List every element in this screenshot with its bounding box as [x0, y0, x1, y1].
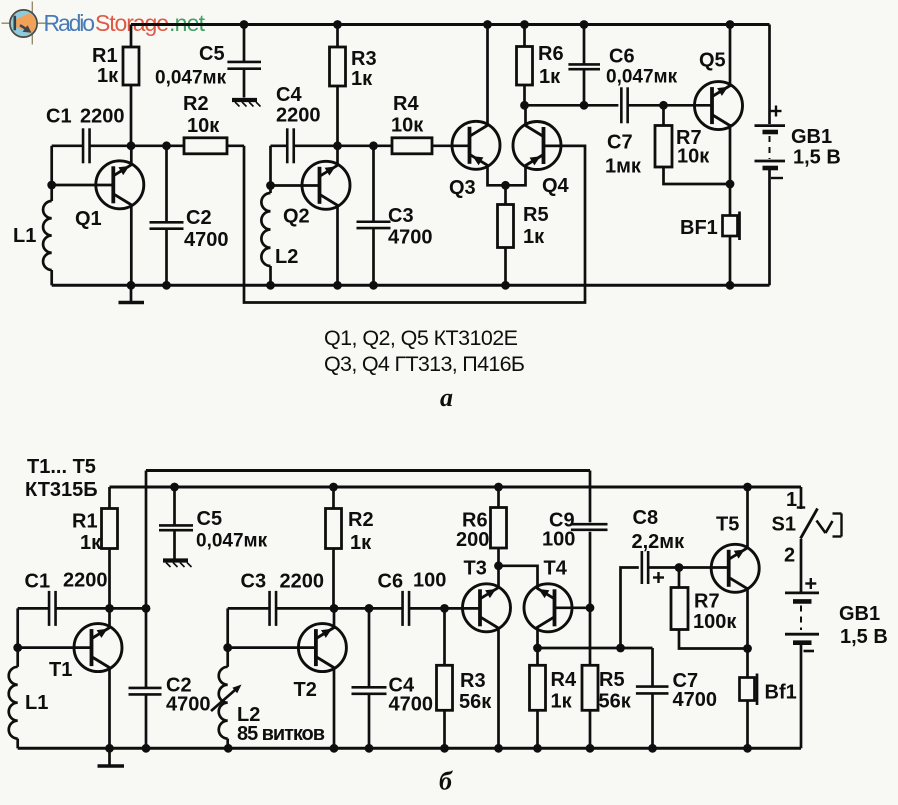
svg-text:0,047мк: 0,047мк — [196, 531, 268, 552]
resistor R2 (a) — [184, 138, 244, 154]
svg-text:10к: 10к — [187, 115, 220, 137]
wire rail to switch (b) — [800, 487, 803, 509]
svg-text:10к: 10к — [391, 115, 424, 137]
svg-text:T2: T2 — [294, 679, 317, 701]
label R3 (b) — [459, 670, 492, 713]
transistor T1 (b) — [74, 624, 122, 672]
svg-text:L1: L1 — [13, 225, 36, 247]
capacitor C9 (b) — [571, 524, 608, 530]
svg-text:BF1: BF1 — [680, 217, 718, 239]
capacitor C6 (a) — [568, 25, 600, 106]
svg-text:1: 1 — [786, 489, 797, 511]
label R6 (b) — [456, 510, 489, 552]
svg-text:T1: T1 — [49, 659, 72, 681]
wire bottom common rail (b) — [18, 747, 801, 750]
earphone BF1 (a) — [723, 212, 740, 286]
switch S1 (b) — [797, 508, 842, 539]
svg-text:2200: 2200 — [276, 105, 321, 127]
transistor T2 (b) — [298, 624, 346, 672]
resistor R7 (b) — [671, 568, 748, 649]
label T4 (b) — [544, 558, 568, 580]
capacitor C7 (b) — [636, 648, 669, 748]
inductor L1 (a) — [43, 201, 52, 285]
wire node line stage1 (b) — [56, 604, 147, 613]
capacitor C5 (b) — [159, 487, 193, 559]
label C7 (a) — [605, 132, 642, 178]
transistor T4 (b) — [524, 584, 572, 632]
resistor R7 (a) — [655, 105, 730, 184]
svg-text:R7: R7 — [694, 591, 720, 613]
label T1 (b) — [49, 659, 72, 681]
logo crosshair — [2, 2, 48, 45]
label Q5 (a) — [699, 50, 726, 72]
label Q3 (a) — [449, 177, 476, 199]
wire T2 collector lead (b) — [333, 608, 336, 629]
label R1 (a) — [92, 45, 119, 87]
svg-text:100: 100 — [413, 570, 446, 592]
svg-text:Q1, Q2, Q5 КТ3102Е: Q1, Q2, Q5 КТ3102Е — [324, 326, 518, 350]
label R2 (a) — [183, 93, 220, 137]
label R4 (a) — [391, 93, 424, 137]
battery minus sign (b) — [804, 650, 815, 653]
wire T3 collector lead (b) — [494, 561, 503, 588]
svg-text:4700: 4700 — [673, 689, 718, 711]
svg-text:C6: C6 — [609, 46, 635, 68]
svg-text:а: а — [440, 383, 453, 412]
wire Q3 emitter lead (a) — [488, 165, 506, 186]
resistor R2 (b) — [326, 487, 342, 608]
svg-text:100: 100 — [542, 529, 575, 551]
wire top supply rail (a) — [131, 23, 770, 26]
wire T4 emitter lead (b) — [533, 627, 542, 665]
wire T1 base lead (b) — [18, 646, 91, 649]
svg-text:C3: C3 — [388, 205, 414, 227]
svg-text:1к: 1к — [351, 68, 373, 90]
wire C1 left lead down (a) — [47, 146, 56, 201]
svg-text:R5: R5 — [599, 669, 625, 691]
capacitor C6 (b) — [403, 591, 480, 626]
ground bar below C5 (a) — [232, 100, 261, 107]
wire T4 collector lead (b) — [499, 566, 538, 589]
transistor Q5 (a) — [695, 82, 743, 130]
earphone Bf1 (b) — [740, 674, 758, 749]
svg-text:2200: 2200 — [280, 571, 325, 593]
svg-text:1к: 1к — [551, 691, 573, 713]
svg-text:0,047мк: 0,047мк — [155, 68, 227, 89]
svg-text:4700: 4700 — [389, 694, 434, 716]
wire T5 emitter lead (b) — [743, 587, 752, 678]
wire bottom common rail (a) — [52, 284, 770, 287]
wire feedback right vertical (b) — [586, 471, 595, 666]
svg-text:C6: C6 — [378, 571, 404, 593]
svg-text:1мк: 1мк — [605, 156, 642, 178]
battery plus sign (a) — [771, 106, 782, 117]
wire T1 emitter lead (b) — [108, 667, 111, 748]
label Q4 (a) — [542, 175, 570, 197]
svg-text:R2: R2 — [348, 509, 374, 531]
svg-text:L1: L1 — [25, 692, 48, 714]
wire Q4 emitter lead (a) — [506, 165, 526, 185]
label C4 (b) — [389, 675, 434, 716]
transistor Q4 (a) — [513, 122, 561, 170]
svg-text:б: б — [439, 767, 453, 796]
capacitor C1 (b) — [18, 591, 56, 626]
label C6 (b) — [378, 570, 447, 593]
svg-text:T3: T3 — [464, 558, 487, 580]
svg-text:1к: 1к — [97, 65, 119, 87]
svg-text:1,5 В: 1,5 В — [840, 626, 888, 648]
svg-text:C1: C1 — [46, 106, 72, 128]
svg-text:КТ315Б: КТ315Б — [25, 479, 98, 501]
label figure a — [440, 383, 453, 412]
node junction dots on top rail (a) — [240, 20, 735, 29]
svg-text:4700: 4700 — [166, 694, 211, 716]
logo text RadioStorage.net — [44, 10, 206, 36]
resistor R1 (b) — [102, 487, 118, 608]
svg-text:2200: 2200 — [80, 106, 125, 128]
svg-text:R3: R3 — [351, 48, 377, 70]
label C1 (a) — [46, 106, 125, 128]
resistor R1 (a) — [123, 25, 139, 146]
label L2 (a) — [275, 246, 298, 268]
wire Q1 base lead (a) — [52, 184, 114, 187]
battery minus sign (a) — [771, 177, 783, 179]
label R1 (b) — [72, 511, 102, 555]
svg-text:2: 2 — [784, 545, 795, 567]
wire Q5 collector lead (a) — [729, 25, 732, 88]
svg-text:R5: R5 — [523, 204, 549, 226]
svg-text:R4: R4 — [551, 669, 577, 691]
wire emitter node line (b) — [538, 644, 653, 653]
wire Q2 base lead (a) — [271, 184, 320, 187]
svg-text:1к: 1к — [80, 532, 102, 554]
svg-text:C8: C8 — [633, 507, 659, 529]
svg-text:2,2мк: 2,2мк — [632, 531, 686, 553]
label L2 (b) — [237, 704, 325, 745]
svg-text:R1: R1 — [72, 511, 98, 533]
svg-text:Q4: Q4 — [542, 175, 570, 197]
label R6 (a) — [538, 43, 564, 88]
inductor L2 (b) — [219, 667, 228, 749]
wire T5 collector lead (b) — [746, 487, 749, 549]
svg-text:56к: 56к — [599, 691, 632, 713]
label T5 (b) — [716, 514, 739, 536]
svg-text:Q5: Q5 — [699, 50, 726, 72]
label BF1 (a) — [680, 217, 718, 239]
svg-text:Q3: Q3 — [449, 177, 476, 199]
wire node line stage1 (a) — [90, 141, 185, 150]
svg-text:C5: C5 — [199, 43, 225, 65]
label C1 (b) — [25, 570, 108, 593]
label R7 (a) — [676, 127, 710, 168]
svg-text:Т1... Т5: Т1... Т5 — [27, 456, 96, 478]
label Q1 (a) — [75, 208, 102, 230]
label C6 (a) — [606, 46, 678, 88]
wire T3 emitter lead (b) — [497, 627, 500, 748]
wire supply rail (b) — [110, 483, 802, 492]
battery GB1 (b) — [785, 539, 819, 748]
label C4 (a) — [276, 84, 321, 127]
label C3 (a) — [388, 205, 433, 249]
svg-text:GB1: GB1 — [791, 126, 832, 148]
svg-text:100к: 100к — [693, 611, 737, 633]
label R3 (a) — [351, 48, 377, 90]
resistor R4 (b) — [530, 665, 546, 748]
label figure b — [439, 767, 453, 796]
resistor R6 (a) — [517, 25, 533, 106]
label C8 (b) — [632, 507, 686, 553]
capacitor C8 (b) — [621, 551, 729, 648]
resistor R6 (b) — [491, 487, 507, 566]
svg-text:200: 200 — [456, 529, 489, 551]
label R5 (a) — [523, 204, 549, 248]
label C8 plus sign (b) — [653, 572, 664, 583]
svg-text:T4: T4 — [544, 558, 568, 580]
wire Q1 emitter lead (a) — [130, 204, 133, 285]
wire Q3 collector lead (a) — [486, 25, 489, 127]
label L1 (b) — [25, 692, 48, 714]
label T3 (b) — [464, 558, 487, 580]
node junction dots on bottom rail (a) — [127, 281, 735, 290]
wire Q4 collector node line (a) — [520, 101, 618, 110]
svg-text:R3: R3 — [460, 670, 486, 692]
wire Q2 collector lead (a) — [336, 146, 339, 167]
wire node line stage2 (a) — [294, 141, 392, 150]
label C5 (a) — [155, 43, 227, 89]
svg-text:Bf1: Bf1 — [765, 682, 797, 704]
inductor L1 (b) — [9, 667, 18, 749]
label Q2 (a) — [283, 206, 310, 228]
label C3 (b) — [241, 571, 325, 593]
wire Q4 base lead (a) — [544, 144, 586, 147]
svg-text:Q2: Q2 — [283, 206, 310, 228]
inductor L2 adjust arrow (b) — [211, 685, 242, 712]
capacitor C4 (b) — [352, 608, 387, 748]
svg-text:R6: R6 — [538, 43, 564, 65]
label T2 (b) — [294, 679, 317, 701]
ground bar below C5 (b) — [163, 561, 192, 568]
svg-text:S1: S1 — [772, 514, 796, 536]
label C2 (a) — [184, 207, 229, 251]
svg-text:C2: C2 — [186, 207, 212, 229]
svg-text:T5: T5 — [716, 514, 739, 536]
capacitor C1 (a) — [52, 128, 90, 163]
wire Q1 collector lead (a) — [130, 146, 133, 166]
svg-text:R2: R2 — [183, 93, 209, 115]
logo transistor icon — [10, 10, 38, 37]
svg-text:1к: 1к — [523, 226, 545, 248]
resistor R3 (a) — [330, 25, 346, 146]
capacitor C5 (a) — [227, 25, 261, 98]
node junction dots on bottom rail (b) — [105, 744, 752, 753]
svg-text:C4: C4 — [276, 84, 302, 106]
label C2 (b) — [166, 675, 211, 716]
capacitor C7 (a) — [621, 87, 711, 123]
svg-text:R1: R1 — [92, 45, 118, 67]
label C7 (b) — [673, 670, 718, 711]
wire Q4 collector lead (a) — [524, 105, 527, 126]
wire Q5 emitter lead (a) — [726, 124, 735, 216]
wire C4 left lead down (a) — [266, 146, 275, 193]
resistor R3 (b) — [437, 608, 453, 748]
wire feedback top rail (b) — [146, 469, 590, 472]
wire C3 left lead down (b) — [223, 608, 232, 666]
wire feedback left vertical (b) — [142, 471, 151, 689]
label transistor types line2 (a) — [324, 352, 525, 376]
wire node line stage2 (b) — [228, 604, 403, 613]
svg-text:0,047мк: 0,047мк — [606, 67, 678, 88]
wire feedback loop (a) — [244, 146, 585, 303]
transistor T3 (b) — [463, 584, 511, 632]
battery plus sign (b) — [805, 578, 816, 589]
svg-text:2200: 2200 — [63, 570, 108, 592]
label R5 (b) — [599, 669, 632, 713]
label transistor types (b) — [25, 456, 98, 501]
transistor Q2 (a) — [302, 161, 350, 209]
svg-text:C3: C3 — [241, 571, 267, 593]
svg-text:C5: C5 — [197, 508, 223, 530]
capacitor C2 (b) — [129, 688, 162, 748]
label GB1 (b) — [839, 603, 888, 648]
capacitor C2 (a) — [150, 146, 184, 285]
wire T4 base lead (b) — [555, 606, 591, 609]
inductor L2 (a) — [261, 193, 270, 285]
svg-text:R4: R4 — [393, 93, 419, 115]
svg-text:1,5 В: 1,5 В — [793, 147, 841, 169]
svg-text:GB1: GB1 — [839, 603, 880, 625]
wire T2 emitter lead (b) — [333, 667, 336, 749]
ground symbol (a) — [119, 285, 145, 302]
label R7 (b) — [693, 591, 737, 634]
transistor Q1 (a) — [96, 161, 144, 209]
label C5 (b) — [196, 508, 268, 552]
label S1 contacts (b) — [772, 489, 798, 567]
svg-text:85 витков: 85 витков — [237, 723, 325, 745]
svg-text:Q1: Q1 — [75, 208, 102, 230]
label C9 (b) — [542, 510, 575, 551]
svg-text:Q3, Q4 ГТ313, П416Б: Q3, Q4 ГТ313, П416Б — [324, 352, 525, 376]
svg-text:4700: 4700 — [184, 229, 229, 251]
wire T2 base lead (b) — [228, 646, 315, 649]
capacitor C3 (b) — [270, 591, 277, 626]
transistor T5 (b) — [711, 544, 759, 592]
svg-text:56к: 56к — [459, 691, 492, 713]
transistor Q3 (a) — [452, 121, 500, 169]
battery GB1 (a) — [755, 25, 786, 286]
svg-text:L2: L2 — [275, 246, 298, 268]
resistor R4 (a) — [392, 138, 469, 154]
wire T1 collector lead (b) — [108, 608, 111, 628]
capacitor C4 (a) — [271, 128, 294, 163]
resistor R5 (b) — [582, 665, 598, 748]
label L1 (a) — [13, 225, 36, 247]
label R4 (b) — [551, 669, 577, 713]
svg-text:C1: C1 — [25, 571, 51, 593]
svg-text:Radio: Radio — [44, 10, 96, 36]
svg-text:4700: 4700 — [388, 227, 433, 249]
svg-text:10к: 10к — [677, 146, 710, 168]
label transistor types line1 (a) — [324, 326, 518, 350]
label GB1 (a) — [791, 126, 841, 169]
svg-text:1к: 1к — [350, 532, 372, 554]
capacitor C3 (a) — [357, 146, 391, 285]
wire C1 left lead down (b) — [13, 608, 22, 666]
label Bf1 (b) — [765, 682, 797, 704]
svg-text:1к: 1к — [539, 66, 561, 88]
resistor R5 (a) — [498, 181, 514, 285]
label R2 (b) — [348, 509, 374, 554]
ground symbol (b) — [98, 748, 125, 766]
wire Q2 emitter lead (a) — [336, 205, 339, 286]
svg-text:C7: C7 — [607, 132, 633, 154]
